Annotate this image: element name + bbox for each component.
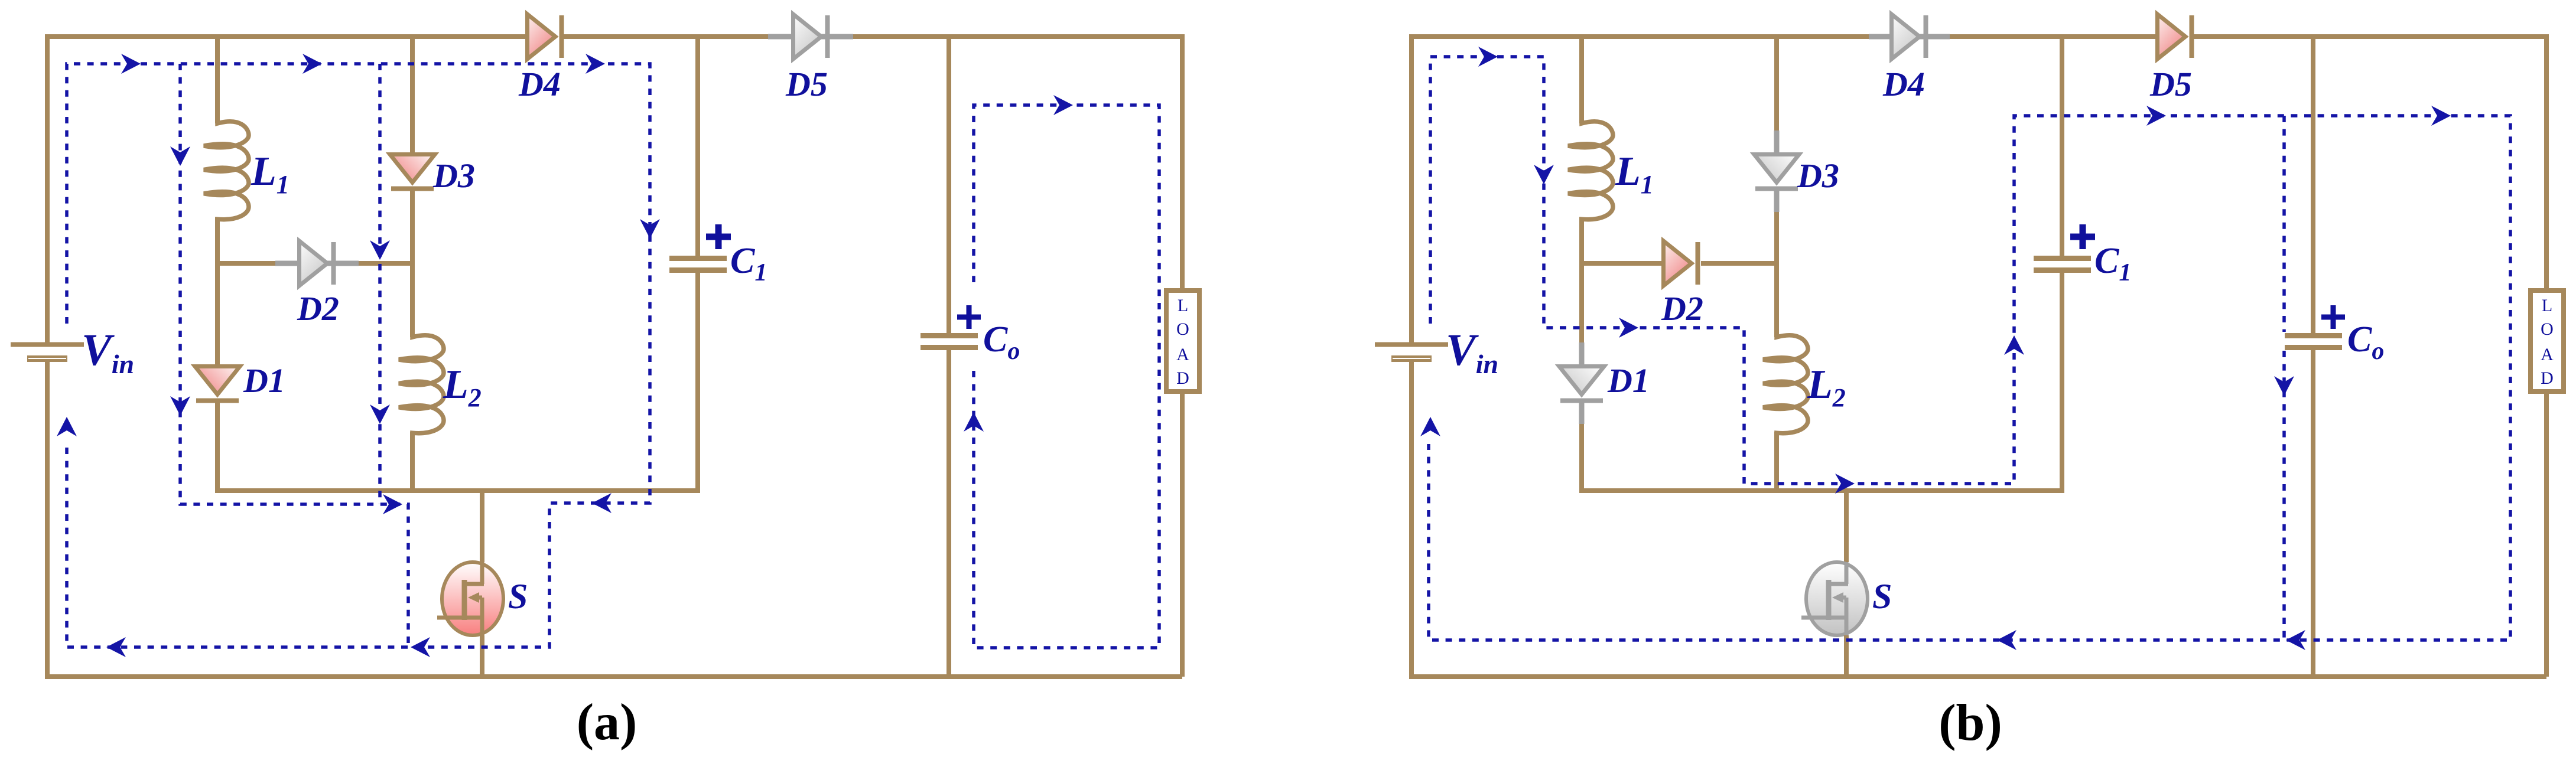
svg-text:S: S (508, 577, 528, 616)
wire D2 left lead (a) (217, 261, 275, 266)
diode D1 (a) (195, 367, 240, 395)
svg-text:D3: D3 (1797, 156, 1839, 195)
battery Vin long plate (a) (11, 342, 84, 347)
arrow up on x2421 dashed (b) (1420, 417, 1440, 436)
arrow up on output loop left (a) (964, 412, 984, 432)
wire D2 right lead (a) (359, 261, 412, 266)
svg-text:D5: D5 (2149, 65, 2192, 103)
svg-text:D4: D4 (518, 65, 561, 103)
wire D3 gray lead top (b) (1774, 130, 1780, 152)
dashed current loop: L1-D1 branch path (a) (180, 64, 408, 647)
capacitor C1 (a) (669, 256, 727, 261)
svg-text:Co: Co (983, 319, 1020, 365)
arrow down on x643 dashed upper (a) (370, 240, 390, 260)
wire Co bottom lead (a) (947, 350, 951, 677)
wire L1 top lead (b) (1579, 37, 1584, 123)
capacitor Co (b) (2285, 333, 2342, 338)
battery Vin short plate (b) (1391, 355, 1432, 362)
arrow down on x2613 dashed (b) (1534, 165, 1554, 184)
wire L1-D2-D1 segment (b) (1579, 217, 1584, 342)
wire D1 bottom lead (a) (215, 402, 220, 493)
svg-text:D1: D1 (1607, 361, 1650, 400)
svg-text:L1: L1 (251, 149, 290, 199)
arrow right on output loop top (a) (1053, 95, 1073, 115)
arrow right on y196 dashed 1 (b) (2146, 106, 2166, 126)
wire bottom bus (b) (1409, 674, 2546, 679)
diode D3 (b) (1754, 155, 1799, 183)
battery Vin short plate (a) (27, 355, 67, 362)
svg-text:D2: D2 (1661, 289, 1703, 328)
wire switch source lead (a) (480, 635, 484, 679)
wire D5 gray lead (a) (768, 34, 853, 40)
wire L1 top lead (a) (215, 37, 220, 123)
wire top bus mid segment (b) (1950, 34, 2155, 39)
svg-text:Co: Co (2347, 319, 2384, 365)
wire right bus lower (b) (2544, 391, 2549, 677)
wire D3 top lead (b) (1774, 37, 1779, 130)
diode D4 (a) (528, 14, 556, 59)
arrow right on y555 dashed (b) (1619, 318, 1638, 338)
arrow down on x3866 dashed (b) (2274, 376, 2294, 396)
wire D3 gray lead bottom (b) (1774, 190, 1780, 212)
arrow left on bottom dashed 1 (a) (106, 637, 126, 657)
wire left bus upper (b) (1409, 34, 1414, 342)
battery Vin long plate (b) (1375, 342, 1448, 347)
arrow right on top dashed 1 (a) (121, 54, 141, 74)
wire D3 top lead (a) (410, 37, 415, 152)
wire L1-D2-D1 segment (a) (215, 217, 220, 364)
transistor S mosfet (b) (1806, 562, 1868, 635)
arrow down on x305 dashed lower (a) (170, 396, 190, 416)
svg-text:D5: D5 (785, 65, 828, 103)
wire D1 gray lead top (b) (1579, 342, 1585, 364)
dashed current loop: main loop (b) (1429, 57, 2510, 640)
plus sign C1 (a) (706, 234, 731, 240)
wire top bus mid segment (a) (564, 34, 768, 39)
svg-text:C1: C1 (2094, 241, 2131, 286)
arrow down on x643 dashed lower (a) (370, 404, 390, 424)
arrow up on x3409 dashed (b) (2004, 335, 2024, 355)
wire switch drain lead (b) (1844, 488, 1849, 562)
arrow left on bottom dashed 2 (a) (411, 637, 430, 657)
svg-text:L2: L2 (443, 362, 482, 412)
dashed current path: Co branch vertical lower (b) (2282, 351, 2286, 640)
arrow up on left dashed (a) (57, 417, 77, 436)
wire right bus lower (a) (1180, 391, 1185, 677)
plus sign Co (b) (2321, 315, 2345, 320)
transistor S mosfet (a) (442, 562, 503, 635)
dashed current loop: input loop (a) (67, 64, 650, 647)
wire D2 gray lead (a) (275, 261, 359, 266)
diode D2 (b) (1664, 241, 1692, 286)
wire right bus upper (a) (1180, 34, 1185, 291)
wire Co top lead (b) (2311, 37, 2315, 333)
diode D5 (a) (793, 14, 822, 59)
inductor L2 (a) (399, 334, 444, 436)
svg-text:D4: D4 (1882, 65, 1925, 103)
wire D4 gray lead (b) (1869, 34, 1950, 40)
wire left bus lower (a) (45, 362, 50, 679)
svg-text:Vin: Vin (82, 325, 134, 379)
arrow right on y819 dashed (b) (1835, 474, 1855, 494)
inductor L1 (b) (1568, 120, 1613, 223)
wire inner bottom node (a) (217, 488, 698, 493)
arrow left on bottom dashed 2 (b) (1997, 630, 2016, 650)
svg-text:L1: L1 (1615, 149, 1654, 199)
svg-text:D3: D3 (432, 156, 475, 195)
load resistor box (a) (1166, 291, 1199, 391)
wire switch source lead (b) (1844, 635, 1849, 679)
wire C1 bottom lead (b) (2060, 273, 2064, 493)
svg-text:L2: L2 (1807, 362, 1846, 412)
wire right bus upper (b) (2544, 34, 2549, 291)
capacitor C1 (b) (2034, 256, 2091, 261)
arrow right on y196 dashed 2 (b) (2431, 106, 2451, 126)
diode D1 (b) (1559, 367, 1604, 395)
svg-text:(a): (a) (577, 694, 638, 751)
wire C1 bottom lead (a) (695, 273, 700, 493)
svg-text:Vin: Vin (1446, 325, 1498, 379)
inductor L1 (a) (204, 120, 249, 223)
dashed current loop: output loop around Co and LOAD (a) (974, 105, 1159, 648)
wire D1 gray lead bottom (b) (1579, 402, 1585, 424)
diode D5 (b) (2158, 14, 2186, 59)
capacitor Co (a) (921, 333, 978, 338)
wire Co bottom lead (b) (2311, 350, 2315, 677)
wire D3-L2 segment (a) (410, 190, 415, 337)
arrow down on x1100 dashed (a) (640, 219, 660, 239)
plus sign Co (a) (957, 315, 981, 320)
wire bottom bus (a) (45, 674, 1182, 679)
wire D2 left lead (b) (1582, 261, 1661, 266)
plus sign C1 (b) (2070, 234, 2095, 240)
wire top bus left segment (b) (1411, 34, 1869, 39)
dashed current loop: D3-L2 branch path (a) (378, 64, 382, 504)
wire top bus right segment (b) (2194, 34, 2546, 39)
arrow right on y854 dashed (a) (383, 494, 402, 514)
arrow left on bottom dashed 1 (b) (2286, 630, 2305, 650)
wire L2 bottom lead (b) (1774, 432, 1779, 493)
svg-text:D1: D1 (243, 361, 285, 400)
arrow left on y852 dashed (a) (592, 493, 612, 513)
diode D4 (b) (1892, 14, 1920, 59)
wire D1 bottom lead (b) (1579, 424, 1584, 493)
wire left bus upper (a) (45, 34, 50, 342)
wire left bus lower (b) (1409, 362, 1414, 679)
diode D3 (a) (390, 155, 435, 183)
wire L2 bottom lead (a) (410, 432, 415, 493)
wire C1 top lead (a) (695, 37, 700, 256)
wire D3-L2 segment (b) (1774, 212, 1779, 337)
svg-text:C1: C1 (730, 241, 767, 286)
svg-text:D2: D2 (297, 289, 339, 328)
arrow right on top dashed 3 (a) (586, 54, 605, 74)
wire inner bottom node (b) (1582, 488, 2062, 493)
arrow right on y96 dashed (b) (1478, 47, 1498, 67)
svg-text:(b): (b) (1938, 694, 2002, 752)
load resistor box (b) (2531, 291, 2564, 391)
wire D2 right lead (b) (1701, 261, 1777, 266)
wire top bus left segment (a) (47, 34, 525, 39)
inductor L2 (b) (1763, 334, 1808, 436)
arrow right on top dashed 2 (a) (303, 54, 322, 74)
wire C1 top lead (b) (2060, 37, 2064, 256)
wire switch drain lead (a) (480, 488, 484, 562)
svg-text:S: S (1872, 577, 1892, 616)
diode D2 (a) (300, 241, 328, 286)
wire top bus right segment (a) (853, 34, 1182, 39)
dashed current path: Co branch vertical upper (b) (2282, 116, 2286, 332)
arrow down on x305 dashed upper (a) (170, 146, 190, 166)
wire Co top lead (a) (947, 37, 951, 333)
